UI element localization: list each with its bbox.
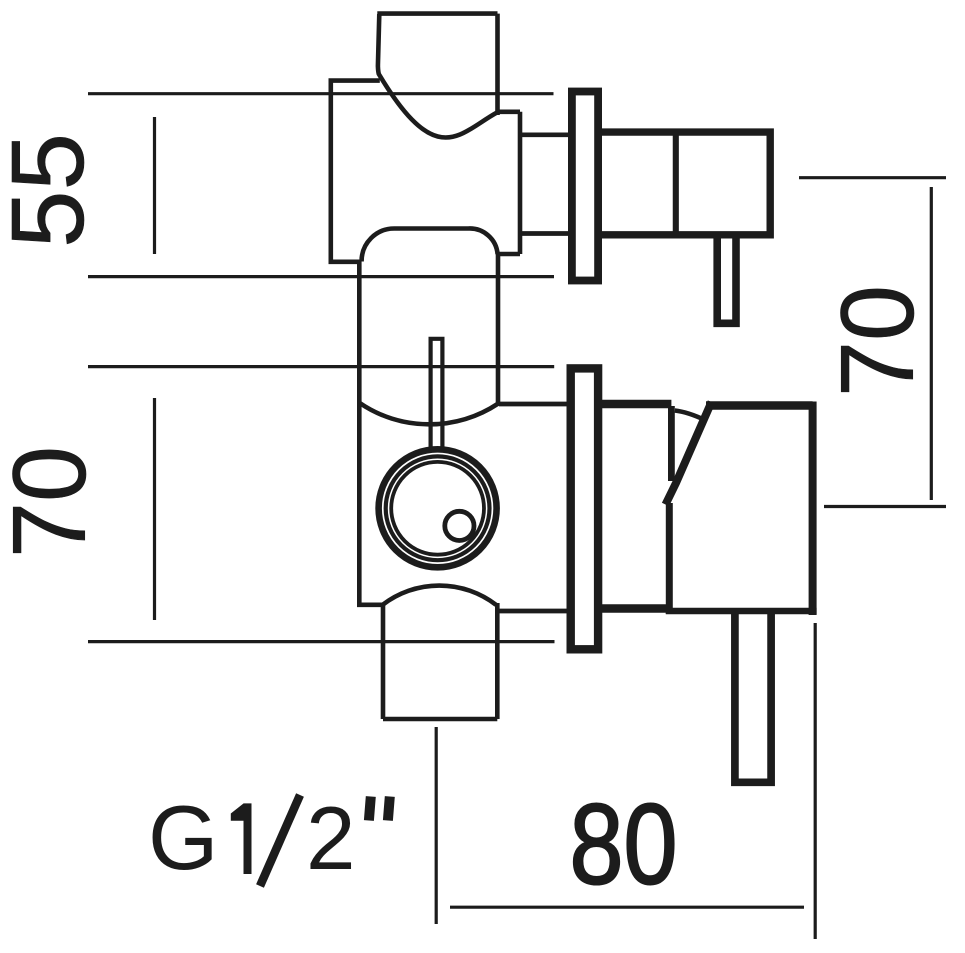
svg-text:55: 55	[0, 133, 105, 248]
svg-text:70: 70	[0, 446, 108, 558]
svg-text:G: G	[148, 788, 218, 889]
svg-text:80: 80	[570, 781, 678, 908]
svg-text:70: 70	[820, 285, 936, 397]
svg-text:2: 2	[306, 788, 356, 888]
